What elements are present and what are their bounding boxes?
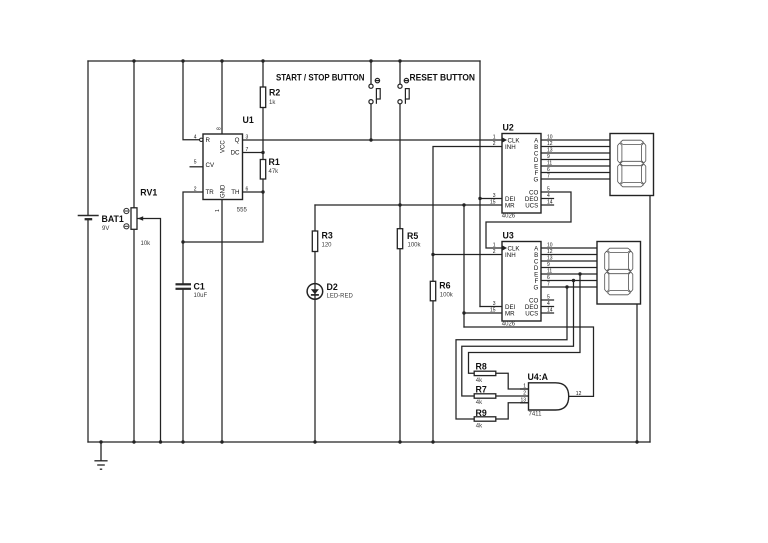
svg-text:2: 2	[493, 141, 496, 147]
svg-text:11: 11	[547, 269, 552, 275]
U2 UCS pin 14 stub	[541, 204, 554, 206]
svg-text:RV1: RV1	[140, 188, 157, 198]
svg-text:4k: 4k	[476, 400, 483, 406]
svg-text:D2: D2	[327, 282, 338, 292]
wire RV1 bottom	[133, 229, 135, 442]
svg-text:U2: U2	[503, 123, 514, 133]
svg-text:11: 11	[547, 161, 552, 167]
svg-text:2: 2	[194, 187, 197, 193]
svg-text:R7: R7	[476, 385, 487, 395]
U4:A gate pin stubs	[520, 389, 529, 403]
wire U3 segment B	[541, 254, 597, 256]
junction VCC/reset button	[398, 59, 401, 62]
wire R9 to gate pin 13	[496, 403, 529, 419]
svg-text:2: 2	[493, 249, 496, 255]
svg-text:6: 6	[547, 275, 550, 281]
U4:A pin numbers	[520, 384, 581, 404]
U3 UCS pin 14 stub	[541, 312, 554, 314]
svg-text:MR: MR	[505, 202, 515, 209]
wire U2 INH to INH rail	[433, 147, 502, 282]
junction MR/reset button	[398, 203, 401, 206]
svg-text:9: 9	[547, 262, 550, 268]
wire reset button top	[399, 61, 401, 84]
svg-text:14: 14	[547, 200, 553, 206]
wire VCC DEI rail	[479, 61, 481, 307]
svg-text:10uF: 10uF	[194, 293, 208, 299]
U3 CO pin 5 stub	[541, 299, 554, 301]
svg-text:MR: MR	[505, 310, 515, 317]
wire U3 DEI pin 3	[480, 306, 502, 308]
LED D2	[307, 284, 323, 300]
resistor R9	[474, 417, 496, 421]
svg-text:1: 1	[493, 243, 496, 249]
resistor R5	[397, 229, 402, 249]
junction clock line/start button	[369, 138, 372, 141]
svg-text:3: 3	[493, 301, 496, 307]
svg-text:15: 15	[490, 308, 496, 314]
svg-text:U3: U3	[503, 231, 514, 241]
junction segment F tap	[572, 279, 575, 282]
wire RV1 wiper to ground	[138, 219, 161, 443]
battery BAT1	[78, 216, 99, 220]
svg-text:R2: R2	[269, 88, 280, 98]
wire R1 bottom to TH node	[183, 179, 263, 242]
U3 pin numbers	[490, 243, 553, 314]
svg-text:U1: U1	[243, 115, 254, 125]
wire AND gate output to MR rail	[464, 327, 594, 396]
op-amp/timer U1 555 body	[203, 134, 243, 200]
svg-text:47k: 47k	[269, 169, 280, 175]
svg-text:LED-RED: LED-RED	[327, 294, 354, 300]
svg-text:100k: 100k	[440, 293, 454, 299]
svg-text:DC: DC	[231, 150, 240, 157]
wire U2 segment C	[541, 152, 610, 154]
wire segment F tap to R7	[462, 281, 574, 397]
display DS1 box	[610, 134, 654, 196]
svg-text:BAT1: BAT1	[102, 214, 124, 224]
wire U3 segment E	[541, 273, 597, 275]
wire R3 to D2	[314, 252, 316, 443]
wire C1 to ground	[182, 290, 184, 442]
svg-text:RESET BUTTON: RESET BUTTON	[410, 73, 476, 84]
counter U2 4026 body	[502, 134, 541, 214]
svg-text:UCS: UCS	[525, 310, 538, 317]
wire R2 to DC node	[262, 108, 264, 160]
svg-text:12: 12	[547, 249, 553, 255]
wire U3 segment G	[541, 286, 597, 288]
wire RV1 top	[133, 61, 135, 208]
resistor R3	[312, 231, 317, 252]
svg-text:7: 7	[547, 282, 550, 288]
U1 pin names	[206, 137, 241, 198]
svg-text:7: 7	[547, 174, 550, 180]
junction VCC/RV1	[132, 59, 135, 62]
junction segment E tap	[578, 272, 581, 275]
resistor R1	[260, 160, 265, 180]
svg-text:15: 15	[490, 200, 496, 206]
svg-text:6: 6	[246, 187, 249, 193]
svg-text:10: 10	[547, 243, 553, 249]
svg-text:555: 555	[237, 208, 248, 214]
svg-text:R9: R9	[476, 408, 487, 418]
svg-text:1: 1	[215, 209, 221, 212]
U2 DEO pin 4 stub	[541, 198, 554, 200]
junction VCC/R2	[261, 59, 264, 62]
wire VCC to R2	[262, 61, 264, 87]
svg-text:G: G	[533, 284, 538, 291]
wire ground bottom bus	[88, 441, 650, 443]
svg-text:R3: R3	[322, 231, 333, 241]
svg-text:4026: 4026	[502, 322, 516, 328]
U2 clock triangle	[502, 137, 507, 142]
wire U3 segment D	[541, 267, 597, 269]
U3 clock triangle	[502, 245, 507, 250]
junction TH node	[261, 190, 264, 193]
wire U2 segment B	[541, 146, 610, 148]
svg-text:R8: R8	[476, 362, 487, 372]
junction VCC/555 reset	[181, 59, 184, 62]
junction segment G tap	[565, 285, 568, 288]
wire battery top rail	[87, 61, 89, 215]
junction MR/MR rail	[462, 203, 465, 206]
wire display DS1 common	[649, 196, 651, 443]
resistor R2	[260, 87, 265, 108]
svg-text:7: 7	[246, 147, 249, 153]
wire display DS2 common	[636, 304, 638, 442]
svg-text:INH: INH	[505, 144, 516, 151]
U3 DEO pin 4 stub	[541, 306, 554, 308]
svg-text:5: 5	[194, 160, 197, 166]
svg-text:1: 1	[523, 384, 526, 390]
svg-text:3: 3	[493, 193, 496, 199]
potentiometer RV1	[131, 208, 140, 230]
display DS1 segments	[618, 140, 646, 187]
junction U2 DEI rail	[478, 197, 481, 200]
wire U2 segment A	[541, 139, 610, 141]
svg-text:Q: Q	[235, 137, 240, 144]
junction U3 MR rail	[462, 311, 465, 314]
svg-text:120: 120	[322, 243, 333, 249]
svg-text:R5: R5	[407, 231, 418, 241]
display DS2 segments	[605, 248, 633, 295]
junction ground/DS2 common	[635, 440, 638, 443]
wire segment E tap to R8	[469, 274, 581, 373]
U3 pin names	[505, 245, 539, 317]
svg-text:2: 2	[523, 391, 526, 397]
svg-text:12: 12	[576, 391, 582, 397]
junction ground/R6	[431, 440, 434, 443]
svg-text:10: 10	[547, 135, 553, 141]
svg-text:14: 14	[547, 308, 553, 314]
wire VCC to 555 reset pin 4	[183, 61, 200, 140]
display DS2 box	[597, 242, 641, 305]
svg-text:VCC: VCC	[221, 140, 227, 153]
svg-text:GND: GND	[221, 184, 227, 198]
svg-text:TH: TH	[231, 189, 239, 196]
junction ground/earth	[99, 440, 102, 443]
svg-text:12: 12	[547, 141, 553, 147]
wire start/stop button top	[370, 61, 372, 84]
U2 pin numbers	[490, 135, 553, 206]
svg-text:INH: INH	[505, 252, 516, 259]
svg-text:10k: 10k	[141, 241, 152, 247]
wire VCC top bus	[88, 60, 480, 62]
wire U3 segment C	[541, 260, 597, 262]
wire 555 DC pin 7	[243, 152, 264, 154]
svg-text:TR: TR	[206, 189, 215, 196]
wire R5 to ground	[399, 249, 401, 442]
wire R7 to gate pin 2	[496, 395, 529, 397]
svg-text:1k: 1k	[269, 100, 276, 106]
svg-text:3: 3	[246, 134, 249, 140]
svg-text:UCS: UCS	[525, 202, 538, 209]
svg-text:4k: 4k	[476, 424, 483, 430]
reset button	[398, 78, 409, 103]
svg-text:5: 5	[547, 295, 550, 301]
svg-text:7411: 7411	[529, 412, 543, 418]
wire 555 GND pin 1	[221, 200, 223, 443]
svg-text:6: 6	[547, 167, 550, 173]
wire U2 CO to U3 CLK	[486, 192, 571, 248]
wire battery bottom rail	[87, 220, 89, 442]
wire U3 INH	[433, 254, 502, 256]
wire 555 TH pin 6	[243, 191, 264, 193]
svg-text:R1: R1	[269, 157, 280, 167]
wire U2 DEI pin 3	[480, 198, 502, 200]
svg-text:4026: 4026	[502, 214, 516, 220]
svg-text:5: 5	[547, 187, 550, 193]
U1 pin numbers	[194, 127, 249, 212]
junction INH node	[431, 253, 434, 256]
svg-text:4k: 4k	[476, 378, 483, 384]
svg-text:1: 1	[493, 135, 496, 141]
svg-text:4: 4	[547, 193, 550, 199]
svg-text:13: 13	[547, 256, 553, 262]
svg-text:4: 4	[547, 301, 550, 307]
ground symbol	[94, 442, 107, 469]
junction ground/RV1	[132, 440, 135, 443]
wire 555 TR pin 2 to C1	[183, 192, 203, 283]
U1 reset pin bubble	[200, 138, 203, 141]
wire U2 segment G	[541, 178, 610, 180]
junction ground/R5	[398, 440, 401, 443]
svg-text:9: 9	[547, 154, 550, 160]
svg-text:G: G	[533, 176, 538, 183]
svg-text:START / STOP BUTTON: START / STOP BUTTON	[276, 73, 365, 84]
junction ground/wiper	[159, 440, 162, 443]
junction DC node	[261, 151, 264, 154]
wire MR rail	[463, 205, 465, 327]
resistor R8	[474, 371, 496, 375]
svg-text:13: 13	[520, 397, 526, 403]
wire U3 segment A	[541, 247, 597, 249]
wire U2 segment D	[541, 159, 610, 161]
svg-text:4: 4	[194, 134, 197, 140]
svg-text:CV: CV	[206, 162, 215, 169]
junction ground/C1	[181, 440, 184, 443]
junction TR/C1 node	[181, 240, 184, 243]
junction VCC/555 pin8	[220, 59, 223, 62]
svg-text:C1: C1	[194, 282, 205, 292]
junction ground/555	[220, 440, 223, 443]
junction VCC/start button	[369, 59, 372, 62]
wire U2 segment E	[541, 165, 610, 167]
svg-text:9V: 9V	[102, 226, 109, 232]
svg-text:R: R	[206, 137, 211, 144]
junction ground/D2	[313, 440, 316, 443]
wire 555 VCC pin 8	[221, 61, 223, 134]
wire reset button to MR line	[399, 104, 401, 229]
wire start/stop button to clock line	[370, 104, 372, 140]
wire U3 segment F	[541, 280, 597, 282]
wire R8 to gate pin 1	[496, 373, 529, 389]
wire U3 MR pin 15	[464, 312, 502, 314]
wire 555 Q output to U2 CLK	[243, 139, 503, 141]
svg-text:R6: R6	[439, 281, 450, 291]
wire R3 top	[314, 205, 316, 231]
svg-text:13: 13	[547, 148, 553, 154]
counter U3 4026 body	[502, 242, 541, 322]
wire R6 to ground	[432, 301, 434, 442]
svg-text:U4:A: U4:A	[528, 372, 549, 382]
svg-text:100k: 100k	[408, 243, 422, 249]
wire MR line	[315, 204, 502, 206]
resistor R7	[474, 394, 496, 398]
resistor R6	[430, 281, 435, 301]
wire segment G tap to R9	[456, 287, 567, 419]
svg-text:8: 8	[217, 127, 223, 130]
capacitor C1	[176, 284, 192, 289]
wire U2 segment F	[541, 172, 610, 174]
AND gate U4:A 7411	[529, 383, 569, 410]
U2 pin names	[505, 137, 539, 209]
U1 CV pin 5 stub	[190, 166, 204, 168]
start/stop button	[369, 78, 380, 103]
